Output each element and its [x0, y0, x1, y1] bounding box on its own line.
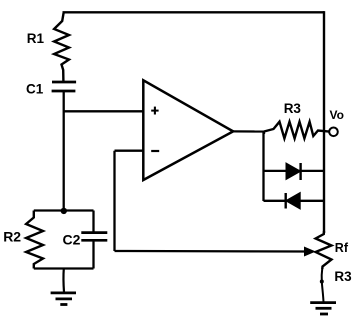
wire ground stub left [62, 269, 65, 293]
capacitor C1 [52, 82, 77, 91]
resistor R2 [26, 211, 43, 269]
wire feedback horizontal [115, 250, 307, 253]
node A junction dot [61, 208, 67, 214]
ground right [310, 303, 336, 314]
diode D2 [286, 193, 300, 209]
label Rf [335, 241, 349, 255]
svg-text:R1: R1 [27, 31, 45, 46]
wire diode bottom branch [264, 200, 325, 202]
label Vo [330, 108, 344, 122]
potentiometer Rf [316, 231, 332, 269]
label R3 (bottom) [334, 269, 352, 284]
label C1 [26, 81, 44, 96]
wire right rail [323, 11, 325, 233]
terminal Vo circle [329, 128, 338, 137]
node blob on bottom wire [320, 280, 324, 284]
label R3 (output) [284, 101, 302, 116]
svg-text:Vo: Vo [330, 108, 344, 122]
wire RC network top [34, 209, 94, 211]
wire op-amp output [233, 130, 264, 132]
op-amp U1 [143, 80, 233, 180]
label R2 [3, 229, 21, 245]
wire plus input [64, 110, 144, 112]
svg-text:C2: C2 [63, 231, 81, 247]
node output junction [263, 132, 265, 135]
wire diode top branch [264, 170, 325, 172]
svg-text:Rf: Rf [335, 241, 349, 255]
wire left vertical (C1 to node A) [63, 91, 65, 211]
wire RC network bottom [34, 267, 94, 269]
capacitor C2 [81, 211, 107, 269]
wire feedback vertical [113, 151, 115, 251]
label C2 [63, 231, 81, 247]
svg-text:R3: R3 [284, 101, 302, 116]
wire top rail [64, 11, 324, 14]
resistor R3 (output) [264, 122, 329, 139]
label R1 [27, 31, 45, 46]
op-amp plus pin mark [151, 107, 158, 115]
svg-text:R3: R3 [334, 269, 352, 284]
resistor R1 [54, 12, 69, 81]
svg-text:C1: C1 [26, 81, 44, 96]
svg-text:R2: R2 [3, 229, 21, 245]
diode D1 [286, 163, 300, 180]
wire diode branch vertical [262, 132, 264, 202]
resistor R3 (bottom) wire [322, 268, 324, 302]
ground left [51, 293, 76, 305]
op-amp minus pin mark [151, 150, 159, 152]
wire minus input [115, 150, 144, 152]
wiper arrowhead [305, 247, 315, 256]
